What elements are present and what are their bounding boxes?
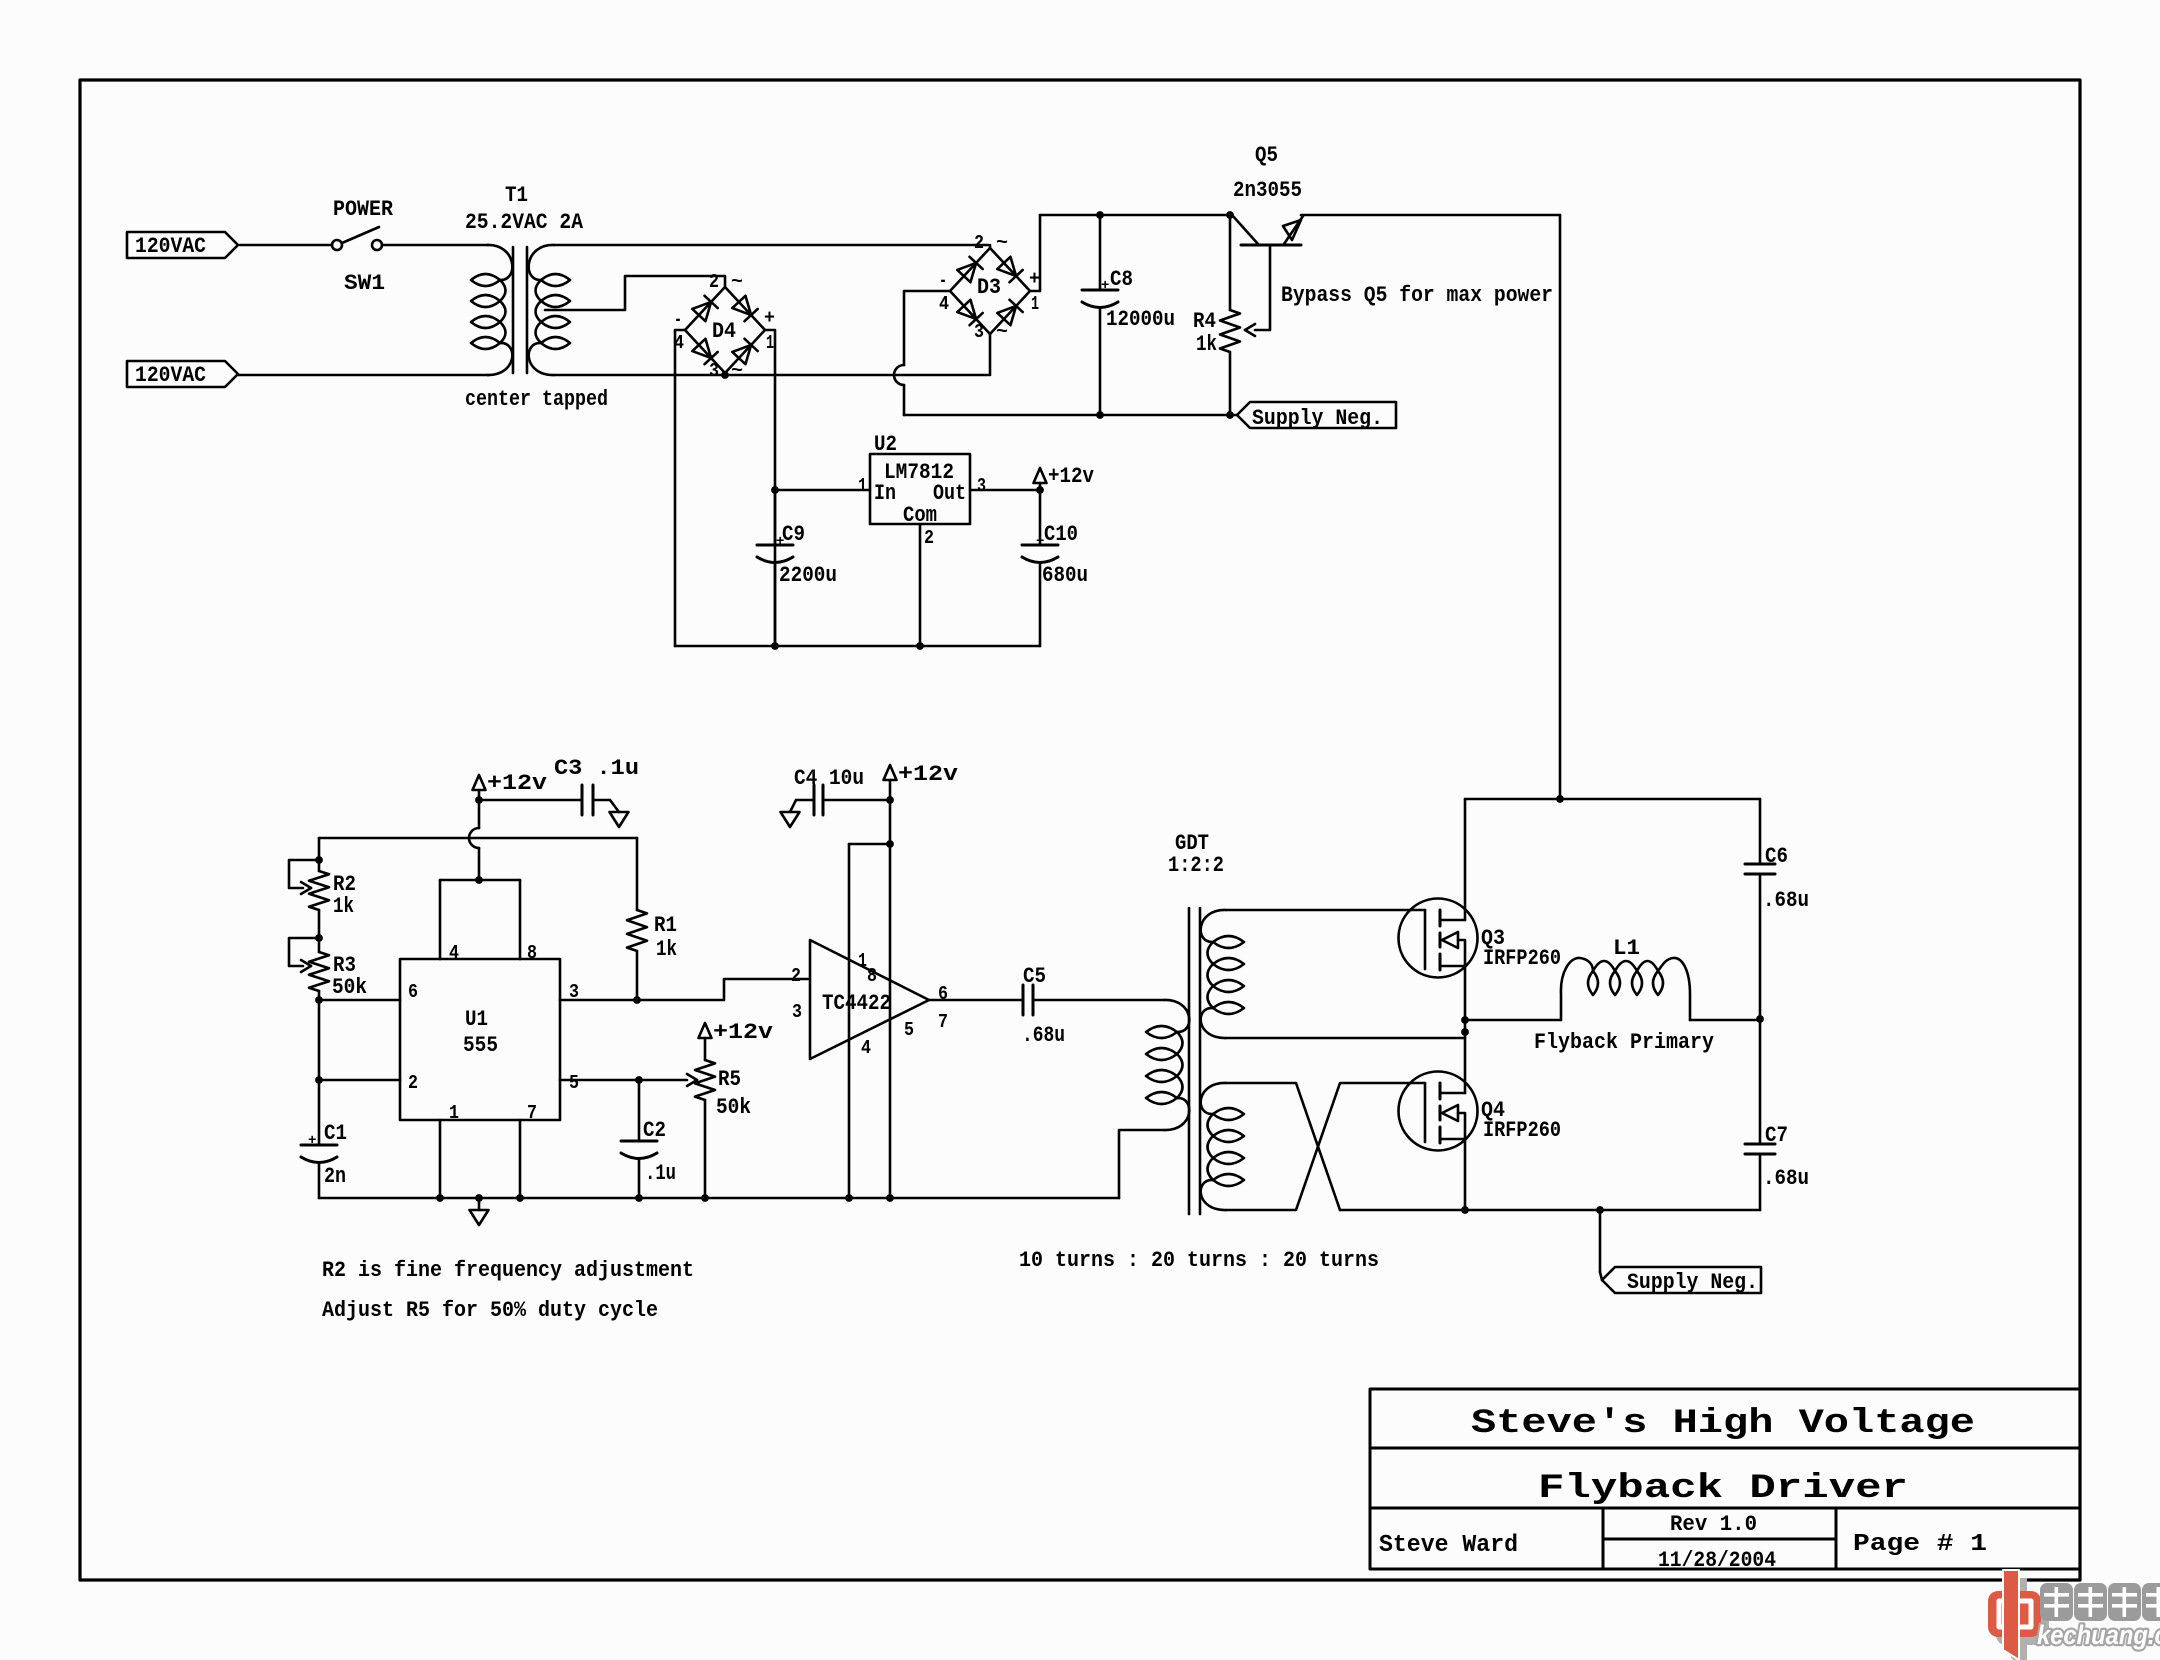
- svg-text:4: 4: [449, 942, 459, 964]
- svg-text:L1: L1: [1613, 936, 1640, 961]
- svg-text:POWER: POWER: [333, 197, 394, 222]
- svg-text:2: 2: [408, 1072, 418, 1094]
- svg-text:5: 5: [904, 1019, 914, 1041]
- svg-text:1: 1: [858, 475, 867, 497]
- svg-text:4: 4: [861, 1037, 871, 1059]
- svg-text:R2 is fine frequency adjustmen: R2 is fine frequency adjustment: [322, 1258, 694, 1283]
- svg-text:10 turns : 20 turns : 20 turns: 10 turns : 20 turns : 20 turns: [1019, 1248, 1379, 1273]
- svg-text:C6: C6: [1765, 844, 1788, 869]
- svg-text:2200u: 2200u: [779, 563, 837, 588]
- svg-text:+: +: [1029, 268, 1040, 290]
- svg-text:25.2VAC 2A: 25.2VAC 2A: [465, 210, 584, 235]
- svg-text:50k: 50k: [716, 1095, 751, 1120]
- svg-text:+12v: +12v: [898, 762, 958, 787]
- svg-text:~: ~: [996, 321, 1008, 343]
- svg-text:1: 1: [766, 332, 774, 354]
- svg-text:680u: 680u: [1042, 563, 1088, 588]
- svg-text:Flyback Primary: Flyback Primary: [1534, 1030, 1714, 1055]
- svg-text:IRFP260: IRFP260: [1483, 946, 1561, 971]
- svg-text:C7: C7: [1765, 1123, 1788, 1148]
- svg-text:6: 6: [408, 981, 418, 1003]
- svg-text:2: 2: [974, 232, 984, 254]
- svg-text:1:2:2: 1:2:2: [1168, 853, 1224, 878]
- svg-text:3: 3: [709, 360, 719, 382]
- svg-text:Out: Out: [933, 481, 966, 506]
- svg-text:C9: C9: [782, 522, 805, 547]
- svg-text:+: +: [1036, 534, 1044, 550]
- svg-text:.68u: .68u: [1022, 1023, 1065, 1048]
- svg-text:Steve's High Voltage: Steve's High Voltage: [1471, 1405, 1975, 1443]
- svg-text:6: 6: [938, 983, 948, 1005]
- svg-text:C4 10u: C4 10u: [794, 766, 864, 791]
- svg-text:T1: T1: [505, 183, 528, 208]
- svg-text:+: +: [308, 1133, 316, 1149]
- svg-text:~: ~: [731, 360, 743, 382]
- svg-text:-: -: [939, 270, 947, 292]
- svg-text:1k: 1k: [1196, 332, 1217, 357]
- svg-text:3: 3: [974, 321, 984, 343]
- svg-text:120VAC: 120VAC: [135, 234, 206, 259]
- svg-text:Supply Neg.: Supply Neg.: [1252, 406, 1383, 431]
- svg-text:2: 2: [791, 965, 801, 987]
- svg-text:50k: 50k: [332, 975, 367, 1000]
- svg-text:U1: U1: [465, 1007, 488, 1032]
- svg-text:2: 2: [924, 527, 934, 549]
- svg-text:TC4422: TC4422: [822, 991, 891, 1016]
- svg-text:C3 .1u: C3 .1u: [554, 756, 639, 781]
- svg-text:Bypass Q5 for max power: Bypass Q5 for max power: [1281, 283, 1553, 308]
- svg-text:7: 7: [938, 1011, 948, 1033]
- svg-text:+12v: +12v: [1048, 464, 1094, 489]
- svg-text:8: 8: [867, 965, 877, 987]
- svg-text:C8: C8: [1110, 267, 1133, 292]
- svg-text:+12v: +12v: [487, 771, 547, 796]
- svg-text:1k: 1k: [656, 937, 677, 962]
- svg-text:+: +: [776, 534, 784, 550]
- svg-text:C5: C5: [1023, 964, 1046, 989]
- svg-text:C1: C1: [324, 1121, 347, 1146]
- svg-text:R5: R5: [718, 1067, 741, 1092]
- svg-text:Q5: Q5: [1255, 143, 1278, 168]
- svg-text:~: ~: [731, 271, 743, 293]
- svg-text:IRFP260: IRFP260: [1483, 1118, 1561, 1143]
- svg-text:Adjust R5 for 50% duty cycle: Adjust R5 for 50% duty cycle: [322, 1298, 658, 1323]
- svg-text:Flyback Driver: Flyback Driver: [1538, 1470, 1908, 1508]
- svg-text:center tapped: center tapped: [465, 387, 608, 412]
- svg-text:Rev 1.0: Rev 1.0: [1670, 1512, 1757, 1537]
- svg-text:Page # 1: Page # 1: [1853, 1531, 1987, 1558]
- svg-text:.1u: .1u: [645, 1161, 676, 1186]
- svg-text:2n3055: 2n3055: [1233, 178, 1302, 203]
- svg-text:U2: U2: [874, 432, 897, 457]
- svg-text:11/28/2004: 11/28/2004: [1658, 1548, 1776, 1573]
- svg-text:R4: R4: [1193, 309, 1216, 334]
- svg-text:555: 555: [463, 1033, 498, 1058]
- svg-text:4: 4: [674, 332, 684, 354]
- svg-text:D3: D3: [977, 275, 1001, 300]
- svg-text:+: +: [1101, 278, 1109, 294]
- svg-text:D4: D4: [712, 319, 736, 344]
- svg-text:C10: C10: [1044, 522, 1078, 547]
- svg-text:In: In: [874, 481, 896, 506]
- svg-text:SW1: SW1: [344, 271, 385, 296]
- svg-text:Steve Ward: Steve Ward: [1379, 1532, 1518, 1559]
- svg-text:-: -: [674, 309, 682, 331]
- svg-text:7: 7: [527, 1102, 537, 1124]
- svg-text:2: 2: [709, 271, 719, 293]
- svg-text:~: ~: [996, 232, 1008, 254]
- svg-text:3: 3: [792, 1001, 802, 1023]
- svg-text:8: 8: [527, 942, 537, 964]
- svg-text:120VAC: 120VAC: [135, 363, 206, 388]
- svg-text:.68u: .68u: [1763, 888, 1809, 913]
- svg-text:2n: 2n: [324, 1164, 346, 1189]
- svg-text:Supply Neg.: Supply Neg.: [1627, 1270, 1758, 1295]
- svg-text:C2: C2: [643, 1118, 666, 1143]
- svg-text:R1: R1: [654, 913, 677, 938]
- svg-text:4: 4: [939, 293, 949, 315]
- svg-text:1k: 1k: [333, 894, 354, 919]
- svg-text:1: 1: [858, 950, 867, 972]
- svg-text:12000u: 12000u: [1106, 307, 1175, 332]
- svg-text:+12v: +12v: [713, 1020, 773, 1045]
- svg-text:.68u: .68u: [1763, 1166, 1809, 1191]
- svg-text:1: 1: [449, 1102, 459, 1124]
- svg-text:5: 5: [569, 1072, 579, 1094]
- svg-text:3: 3: [977, 475, 986, 497]
- svg-text:1: 1: [1031, 293, 1039, 315]
- svg-text:+: +: [764, 307, 775, 329]
- svg-text:kechuang.o: kechuang.o: [2037, 1620, 2160, 1650]
